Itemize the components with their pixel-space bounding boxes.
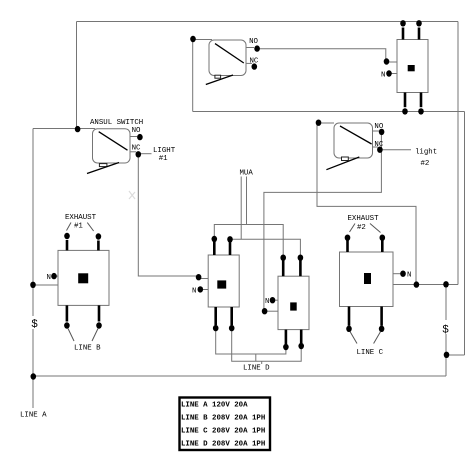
svg-text:$: $ bbox=[442, 325, 449, 337]
fuse left $ bbox=[29, 316, 38, 329]
wire MUA1 N stub bbox=[200, 289, 208, 291]
svg-text:#2: #2 bbox=[357, 224, 366, 232]
svg-text:LINE D: LINE D bbox=[243, 365, 270, 373]
wire line c slant left bbox=[350, 332, 357, 344]
wire top-middle NO to contactor bbox=[257, 49, 386, 62]
legend box bbox=[180, 398, 271, 451]
svg-text:LINE A 120V 20A: LINE A 120V 20A bbox=[181, 402, 248, 410]
node exhaust1 bottom-right terminal bbox=[96, 322, 102, 328]
node MUA2 bottom-right terminal bbox=[298, 343, 304, 349]
node U1 N terminal bbox=[386, 70, 392, 76]
wire right vertical from top to y284 bbox=[457, 22, 459, 285]
fuse right $ bbox=[441, 320, 450, 334]
node MUA1 bottom-right terminal bbox=[229, 325, 235, 331]
node MUA1 top-left terminal bbox=[212, 236, 218, 242]
wire faint mark artifact bbox=[129, 191, 135, 199]
node junction right fuse top bbox=[443, 281, 449, 287]
contactor U1 (top right) bbox=[397, 40, 428, 93]
wire S2 NC stub bbox=[246, 62, 252, 64]
wire ansul NC stub bbox=[130, 151, 136, 153]
node MUA2 N terminal bbox=[270, 297, 276, 303]
node S2 NC dot bbox=[252, 63, 258, 69]
node S2 NO dot bbox=[254, 45, 260, 51]
node MUA2 coil terminal bbox=[262, 308, 268, 314]
svg-text:LINE B 208V 20A 1PH: LINE B 208V 20A 1PH bbox=[181, 415, 265, 423]
node ansul junction dot bbox=[75, 126, 81, 132]
wire LINE D tick 1 bbox=[255, 354, 257, 361]
wire S3 NC stub bbox=[373, 146, 379, 148]
svg-text:#1: #1 bbox=[74, 223, 83, 231]
node exhaust1 N terminal bbox=[51, 273, 57, 279]
svg-text:LINE C: LINE C bbox=[357, 349, 384, 357]
svg-text:#2: #2 bbox=[421, 160, 430, 168]
wire S2 NO stub bbox=[246, 47, 254, 49]
wire exhaust1 slant right bbox=[87, 223, 93, 231]
wire line b slant right bbox=[92, 329, 98, 342]
node exhaust2 N terminal bbox=[400, 271, 406, 277]
wire from 446,355 to right vertical C bbox=[446, 354, 465, 356]
svg-text:N: N bbox=[192, 287, 196, 295]
node U1 bottom-left terminal bbox=[402, 108, 408, 114]
wire exhaust2 slant left bbox=[350, 224, 356, 233]
svg-text:LINE D 208V 20A 1PH: LINE D 208V 20A 1PH bbox=[181, 441, 265, 449]
svg-text:LIGHT: LIGHT bbox=[153, 147, 176, 155]
svg-text:NO: NO bbox=[249, 38, 258, 46]
node U1 top-right terminal bbox=[416, 20, 422, 26]
node MUA2 top-right terminal bbox=[298, 255, 304, 261]
node MUA1 coil terminal bbox=[196, 274, 202, 280]
wire right mid vertical with fuse bbox=[445, 285, 447, 377]
node S3 COM dot bbox=[316, 120, 322, 126]
svg-text:N: N bbox=[407, 272, 411, 280]
contactor EXHAUST #1 bbox=[58, 250, 109, 305]
node MUA2 top-left terminal bbox=[280, 255, 286, 261]
wire MUA feed left bbox=[240, 177, 242, 240]
wire line b slant left bbox=[68, 329, 74, 342]
contactor EXHAUST #2 bbox=[340, 252, 394, 307]
wire bus A y224 bbox=[214, 225, 283, 256]
wire light2 NC to label bbox=[380, 149, 411, 151]
svg-text:LINE B: LINE B bbox=[74, 345, 101, 353]
svg-text:#1: #1 bbox=[159, 155, 168, 163]
wire LINE D tick 2 bbox=[261, 361, 263, 364]
wire MUA1 upper-left stub bbox=[199, 278, 208, 280]
wire outer-left vertical bbox=[32, 129, 34, 409]
node U1 coil terminal bbox=[384, 58, 390, 64]
node U1 top-left terminal bbox=[400, 20, 406, 26]
node exhaust2 top-right terminal bbox=[380, 235, 386, 241]
wire exhaust1 N stub bbox=[54, 275, 58, 277]
wire ansul NC down and right to MUA1 bbox=[138, 154, 198, 276]
node MUA1 top-right terminal bbox=[227, 236, 233, 242]
node ansul NC dot bbox=[136, 151, 142, 157]
node junction left wire y285 bbox=[30, 282, 36, 288]
wire MUA1 bottom-right to bus bbox=[232, 331, 302, 362]
wire bus B y239 bbox=[230, 239, 300, 255]
wire exhaust2 slant right bbox=[370, 224, 381, 233]
node exhaust1 top-left terminal bbox=[64, 233, 70, 239]
wire contactor U1 N stub bbox=[389, 73, 397, 75]
svg-text:MUA: MUA bbox=[240, 170, 254, 178]
node ansul NO dot bbox=[137, 134, 143, 140]
node S3 NC dot bbox=[377, 147, 383, 153]
node exhaust2 bottom-right terminal bbox=[379, 326, 385, 332]
node junction left bottom y376 bbox=[31, 373, 37, 379]
wire ansul NO stub bbox=[130, 136, 137, 138]
wire exhaust1 left feed bbox=[33, 284, 58, 286]
wire MUA2 lower-left stub bbox=[265, 310, 278, 312]
node exhaust1 top-right terminal bbox=[96, 233, 102, 239]
node MUA2 bottom-left terminal bbox=[283, 344, 289, 350]
wire right vertical C bbox=[464, 112, 466, 356]
node junction light2-COM/exhaust2 wire bbox=[414, 281, 420, 287]
svg-text:light: light bbox=[415, 148, 437, 156]
svg-text:N: N bbox=[47, 274, 51, 282]
svg-text:ANSUL SWITCH: ANSUL SWITCH bbox=[90, 119, 143, 127]
wire MUA2 N stub bbox=[273, 299, 279, 301]
wire light2 COM loop bbox=[319, 122, 335, 124]
node S3 NO dot bbox=[379, 129, 385, 135]
wire top-middle switch COM vertical bbox=[192, 39, 194, 112]
contactor MUA #1 bbox=[208, 255, 239, 307]
svg-text:EXHAUST: EXHAUST bbox=[348, 215, 380, 223]
wire y111 horizontal bbox=[193, 111, 465, 113]
wire ansul NC to light1 bbox=[139, 153, 152, 155]
wire COM dot to switch body bbox=[193, 39, 212, 41]
node exhaust2 bottom-left terminal bbox=[346, 326, 352, 332]
svg-text:N: N bbox=[265, 298, 269, 306]
svg-text:LINE C 208V 20A 1PH: LINE C 208V 20A 1PH bbox=[181, 428, 265, 436]
wire bottom horizontal LINE A bbox=[33, 375, 446, 377]
node MUA1 bottom-left terminal bbox=[213, 325, 219, 331]
wire exhaust1 slant left bbox=[67, 223, 72, 231]
wire light2 NO down-left to MUA2 bbox=[264, 133, 382, 310]
node junction right fuse bottom bbox=[444, 352, 450, 358]
wire line c slant right bbox=[374, 332, 381, 344]
svg-text:LINE A: LINE A bbox=[20, 412, 47, 420]
svg-text:$: $ bbox=[31, 319, 38, 331]
wire exhaust2 N stub bbox=[393, 273, 401, 275]
node MUA1 N terminal bbox=[198, 286, 204, 292]
wire MUA feed right bbox=[246, 177, 248, 225]
node exhaust2 top-left terminal bbox=[345, 235, 351, 241]
wire top horizontal bbox=[77, 21, 459, 23]
node S2 COM dot bbox=[190, 36, 196, 42]
switch S2 top-middle body bbox=[206, 40, 246, 85]
node exhaust1 bottom-left terminal bbox=[64, 322, 70, 328]
contactor MUA #2 bbox=[278, 276, 309, 329]
node U1 bottom-right terminal bbox=[418, 108, 424, 114]
ansul switch S1 body bbox=[87, 129, 130, 174]
wire ansul junction horizontal bbox=[33, 128, 95, 130]
wire y284 from exhaust2 right edge to right vertical bbox=[393, 284, 458, 286]
switch S3 light2 body bbox=[326, 123, 372, 170]
wire contactor U1 upper-left stub bbox=[387, 61, 398, 63]
svg-text:NO: NO bbox=[132, 127, 141, 135]
wire MUA1 bottom-left to bus bbox=[216, 331, 286, 355]
wire S3 NO stub bbox=[373, 130, 380, 132]
svg-text:EXHAUST: EXHAUST bbox=[65, 214, 97, 222]
wire left vertical from top to ansul junction bbox=[76, 22, 78, 129]
svg-text:N: N bbox=[381, 72, 385, 80]
